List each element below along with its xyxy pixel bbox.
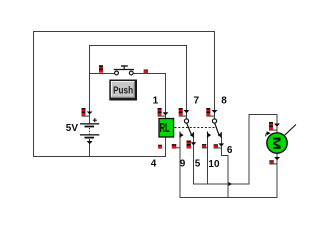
wire push switch left segment <box>89 73 115 75</box>
wire pin6 step horizontal <box>221 155 229 157</box>
relay-switch mechanical dashed link <box>175 127 218 129</box>
svg-text:4: 4 <box>151 159 157 170</box>
wire vertical to switch1 common <box>186 45 188 119</box>
current arrow pin6 <box>218 143 224 146</box>
current mark relay pin1 <box>158 108 166 116</box>
svg-text:5: 5 <box>195 159 201 170</box>
svg-text:RL: RL <box>160 121 170 136</box>
current mark relay pin4 right <box>172 145 176 149</box>
svg-text:10: 10 <box>208 159 220 170</box>
push switch actuator stem <box>123 66 125 70</box>
current mark pin5 <box>187 141 191 149</box>
current arrow motor bottom <box>274 157 280 160</box>
current mark pin9 <box>172 144 180 148</box>
battery B1 5V <box>66 118 100 138</box>
wire pin10 vertical <box>207 138 209 185</box>
current arrow relay pin1 <box>163 112 169 115</box>
wire outer left edge <box>33 31 35 157</box>
motor body circle <box>267 133 287 153</box>
wire outer top edge <box>33 31 215 33</box>
push switch left terminal circle <box>115 71 119 75</box>
battery plate short thick top <box>85 126 95 128</box>
sw1 left contact <box>180 133 184 138</box>
wire motor branch top horizontal <box>249 114 278 116</box>
relay coil RL <box>159 119 174 138</box>
motor rotation arrow <box>266 133 268 137</box>
svg-text:M: M <box>270 137 282 150</box>
sw2 lever <box>215 123 220 136</box>
current arrow switch2 top <box>212 110 218 113</box>
current mark switch1 top <box>179 108 187 116</box>
wire pin9 vertical <box>179 138 181 199</box>
current mark motor bottom <box>269 160 277 164</box>
wire pin6 drop vertical crossing mid line <box>227 156 229 199</box>
motor shaft line <box>284 125 296 136</box>
current mark switch2 top <box>206 108 214 116</box>
svg-text:Push: Push <box>113 85 133 96</box>
wire right vertical to switch2 common <box>214 31 216 119</box>
current arrow above battery <box>87 112 93 115</box>
push switch S1 (push-to-make) <box>114 66 134 75</box>
svg-text:1: 1 <box>153 95 159 106</box>
sw1 lever <box>187 123 192 136</box>
current arrow switch1 top <box>184 110 190 113</box>
wire motor branch vertical <box>248 114 250 185</box>
sw1 common circle <box>184 119 188 123</box>
wire bottom motor line <box>180 197 278 199</box>
svg-text:5V: 5V <box>66 123 79 134</box>
wire relay pin1 vertical <box>165 73 167 119</box>
current arrow motor top <box>274 124 280 127</box>
current mark pin6 <box>214 144 222 148</box>
current mark push switch right <box>144 69 148 73</box>
svg-text:6: 6 <box>227 145 233 156</box>
wire motor top vertical <box>276 114 278 133</box>
battery plate long bottom <box>80 134 99 135</box>
push switch actuator cap <box>121 65 128 67</box>
wire pin6 vertical <box>220 138 222 157</box>
wire battery top vertical <box>89 45 91 124</box>
battery plate long top <box>80 123 99 124</box>
wire battery bottom vertical <box>89 139 91 157</box>
current mark motor top <box>269 122 277 130</box>
wire push switch right segment <box>133 73 166 75</box>
sw2 common circle <box>212 119 216 123</box>
wire inner top edge <box>90 45 188 47</box>
current mark push switch left <box>99 65 103 72</box>
battery plate short thick bottom <box>85 137 95 139</box>
wire motor bottom vertical <box>276 154 278 199</box>
current mark pin10 <box>202 144 208 148</box>
wire mid line pins 5-10 to motor branch <box>193 183 250 185</box>
wire pin5 vertical <box>193 138 195 185</box>
switch SW2 (pins 8/10/6) <box>208 119 222 138</box>
sw2 left contact <box>208 133 212 138</box>
push switch right terminal circle <box>129 71 133 75</box>
sw1 right contact <box>190 133 194 138</box>
motor M1 <box>266 125 296 154</box>
current arrow pin5 <box>191 142 197 145</box>
wire bottom edge battery loop <box>33 156 166 158</box>
svg-text:8: 8 <box>221 95 227 106</box>
current arrow below battery <box>87 141 93 144</box>
junction hop mark at pin6 crossing mid line <box>229 182 233 186</box>
battery dotted link <box>89 128 91 135</box>
Push button control <box>109 80 137 101</box>
svg-text:9: 9 <box>180 159 186 170</box>
push switch bar <box>114 69 134 71</box>
current mark relay pin4 left <box>158 145 162 149</box>
wire relay pin4 vertical <box>165 137 167 157</box>
sw2 right contact <box>218 133 222 138</box>
battery plus sign <box>93 119 97 121</box>
current mark battery top <box>82 108 90 116</box>
switch SW1 (pins 7/9/5) <box>180 119 194 138</box>
svg-text:7: 7 <box>194 95 200 106</box>
